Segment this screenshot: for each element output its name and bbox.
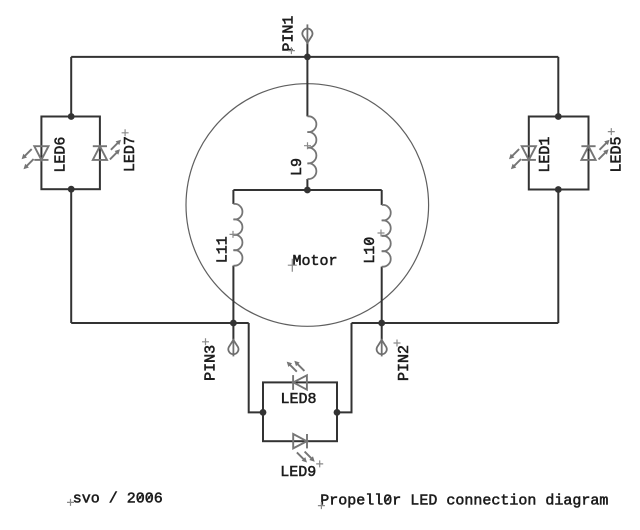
junction left box bottom <box>68 186 75 193</box>
wire PIN2 branch down to LED8 box <box>337 323 352 412</box>
svg-text:LED5: LED5 <box>608 136 625 172</box>
origin cross LED5 <box>608 128 615 135</box>
wire bottom left <box>71 322 249 324</box>
LED D6 arrowheads <box>22 154 27 159</box>
svg-text:Propell0r LED connection diagr: Propell0r LED connection diagram <box>320 492 608 509</box>
LED D1 symbol <box>511 146 536 167</box>
LED D9 symbol <box>293 434 312 460</box>
wire L10 top lead <box>381 190 383 205</box>
origin cross title <box>318 502 325 509</box>
motor body circle <box>186 84 429 327</box>
LED D6 symbol <box>24 146 49 167</box>
svg-text:PIN2: PIN2 <box>396 345 413 381</box>
svg-text:LED7: LED7 <box>122 136 139 172</box>
inductor L11 coil <box>233 204 242 266</box>
origin cross PIN2 <box>394 340 401 347</box>
svg-text:LED6: LED6 <box>52 137 69 173</box>
junction right box bottom <box>555 186 562 193</box>
svg-text:L11: L11 <box>215 236 232 263</box>
LED6/LED7 box <box>41 117 100 190</box>
origin cross L11 <box>230 231 237 238</box>
wire middle rail <box>233 189 381 191</box>
junction LED8 box right <box>334 409 341 416</box>
LED D9 arrowheads <box>302 457 307 462</box>
LED8/LED9 box <box>263 382 337 441</box>
slashed zero L10 <box>365 239 372 244</box>
junction bottom left <box>230 320 237 327</box>
LED D8 symbol <box>289 363 307 390</box>
junction bottom right <box>378 320 385 327</box>
wire PIN3 branch down to LED8 box <box>249 323 263 412</box>
svg-text:LED1: LED1 <box>537 137 554 173</box>
origin cross Motor <box>288 259 297 272</box>
junction LED8 box left <box>260 409 267 416</box>
LED D1 arrowheads <box>509 154 514 159</box>
LED D7 symbol <box>93 142 119 160</box>
wire L11 bottom lead <box>232 266 234 323</box>
junction right box top <box>555 113 562 120</box>
junction middle rail <box>304 187 311 194</box>
wire PIN2 stub <box>381 323 383 340</box>
wire L10 bottom lead <box>381 267 383 323</box>
origin cross PIN3 <box>202 338 209 345</box>
LED D7 arrowheads <box>116 140 121 145</box>
origin cross L9 <box>304 142 311 149</box>
LED D5 arrowheads <box>604 140 609 145</box>
wire L9 bottom lead <box>306 179 308 190</box>
junction PIN1 <box>304 54 311 61</box>
LED1/LED5 box <box>529 117 589 190</box>
inductor L10 coil <box>382 205 391 267</box>
inductor L9 coil <box>307 116 316 179</box>
svg-text:L9: L9 <box>289 158 306 176</box>
junction left box top <box>68 113 75 120</box>
origin cross LED9 <box>316 460 323 467</box>
wire right rail upper <box>557 57 559 117</box>
connector PIN3 balloon <box>228 340 238 357</box>
LED D8 arrowheads <box>287 362 292 367</box>
origin cross L10 <box>378 230 385 237</box>
svg-text:LED8: LED8 <box>281 391 317 408</box>
svg-text:Motor: Motor <box>293 253 338 270</box>
connector PIN2 balloon <box>377 340 387 357</box>
wire bottom right <box>352 322 559 324</box>
origin cross PIN1 <box>288 47 295 54</box>
wire left rail lower <box>70 189 72 323</box>
wire top rail <box>71 56 558 58</box>
wire left rail upper <box>70 57 72 117</box>
origin cross LED7 <box>122 129 129 136</box>
slashed zero marks <box>138 494 391 503</box>
wire L11 top lead <box>232 190 234 204</box>
svg-text:PIN1: PIN1 <box>281 16 298 52</box>
wire right rail lower <box>557 190 559 324</box>
LED D5 symbol <box>581 142 607 160</box>
wire PIN1 to L9 <box>306 43 308 117</box>
svg-text:LED9: LED9 <box>280 464 316 481</box>
connector PIN1 balloon <box>302 24 312 43</box>
svg-text:L10: L10 <box>362 237 379 264</box>
wire PIN3 stub <box>232 323 234 340</box>
origin cross author <box>67 499 74 506</box>
svg-text:PIN3: PIN3 <box>202 345 219 381</box>
svg-text:svo / 2006: svo / 2006 <box>73 491 163 508</box>
